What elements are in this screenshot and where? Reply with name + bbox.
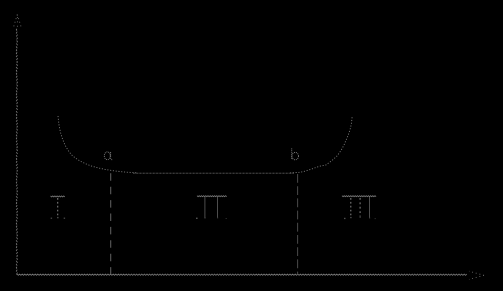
x-axis arrowhead — [469, 271, 484, 279]
y-axis arrowhead — [14, 15, 22, 28]
label I (region 1) — [51, 196, 65, 217]
curve left branch (infant mortality) — [58, 116, 137, 173]
curve right branch (wear-out) — [290, 116, 352, 173]
dashed vertical at b — [297, 174, 299, 275]
x-axis — [17, 274, 467, 275]
label I bottom serif dots — [51, 217, 65, 219]
y-axis — [16, 28, 17, 275]
label III (region 3) — [342, 196, 376, 218]
dashed vertical at a — [110, 173, 112, 274]
label II (region 2) — [197, 196, 227, 218]
curve flat bottom (useful life, dotted) — [133, 172, 294, 174]
label III bottom serif dots — [344, 217, 376, 220]
label a (italic serif, drawn) — [104, 152, 112, 160]
label II bottom serif dots — [196, 217, 227, 219]
label b (italic serif, drawn) — [292, 148, 299, 159]
